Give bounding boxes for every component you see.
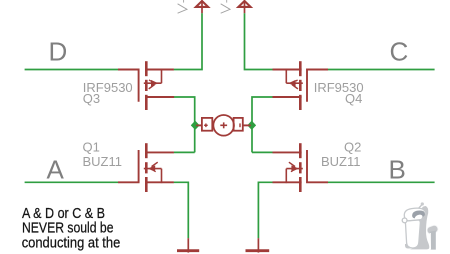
motor M1: [196, 115, 250, 136]
wire D: [25, 69, 118, 71]
svg-text:D: D: [49, 37, 68, 67]
net label chevron left: [178, 0, 187, 13]
wire Q1 source to ground: [174, 182, 189, 238]
logo arm forearm (digit 1): [430, 231, 436, 250]
svg-text:NEVER sould be: NEVER sould be: [22, 221, 114, 237]
transistor Q1 BUZ11: [118, 143, 174, 192]
svg-text:A & D or C & B: A & D or C & B: [22, 206, 105, 222]
logo shadow blob: [410, 206, 430, 249]
svg-text:BUZ11: BUZ11: [321, 154, 361, 169]
svg-text:A: A: [47, 154, 65, 184]
logo arm shoulder: [426, 224, 439, 235]
wire Q3 drain to motor node: [174, 97, 195, 152]
junction node right: [248, 121, 256, 129]
motor pin over node left: [196, 124, 202, 126]
logo head: [404, 208, 426, 221]
ground left: [177, 238, 199, 252]
wire Q2 source to ground: [258, 182, 272, 238]
svg-text:B: B: [389, 154, 406, 184]
svg-text:Q3: Q3: [83, 91, 100, 106]
svg-text:BUZ11: BUZ11: [83, 154, 123, 169]
svg-text:Q2: Q2: [344, 140, 361, 155]
wire Q1 drain to motor node: [174, 151, 195, 153]
junction node left: [191, 121, 199, 129]
logo eye crescent: [412, 210, 425, 218]
transistor Q3 IRF9530: [118, 61, 174, 110]
logo ear: [402, 218, 407, 223]
wire B: [328, 181, 435, 183]
net label chevron right: [221, 0, 230, 13]
logo antenna tip: [421, 202, 424, 205]
wire Q4 drain to motor node: [252, 97, 273, 152]
power symbol +12V left: [196, 0, 208, 13]
wire A: [25, 181, 118, 183]
logo arm highlight: [429, 233, 431, 249]
logo antenna: [418, 205, 423, 210]
logo head shading: [421, 210, 426, 219]
svg-text:C: C: [390, 37, 409, 67]
ground right: [246, 238, 270, 252]
svg-text:Q1: Q1: [83, 140, 100, 155]
power symbol +12V right: [238, 0, 250, 13]
wire Q2 drain to motor node: [252, 151, 273, 153]
transistor Q4 IRF9530: [273, 61, 329, 110]
wire rail right (arrow to Q4 source): [245, 13, 273, 69]
logo foot: [405, 244, 412, 249]
wire C: [328, 69, 435, 71]
wire rail left (arrow to Q3 source): [174, 13, 202, 69]
svg-text:Q4: Q4: [345, 91, 362, 106]
svg-text:conducting at the: conducting at the: [22, 235, 121, 251]
watermark logo robot: [402, 202, 439, 249]
logo body: [405, 220, 420, 248]
motor pin over node right: [243, 124, 251, 126]
transistor Q2 BUZ11: [273, 143, 329, 192]
